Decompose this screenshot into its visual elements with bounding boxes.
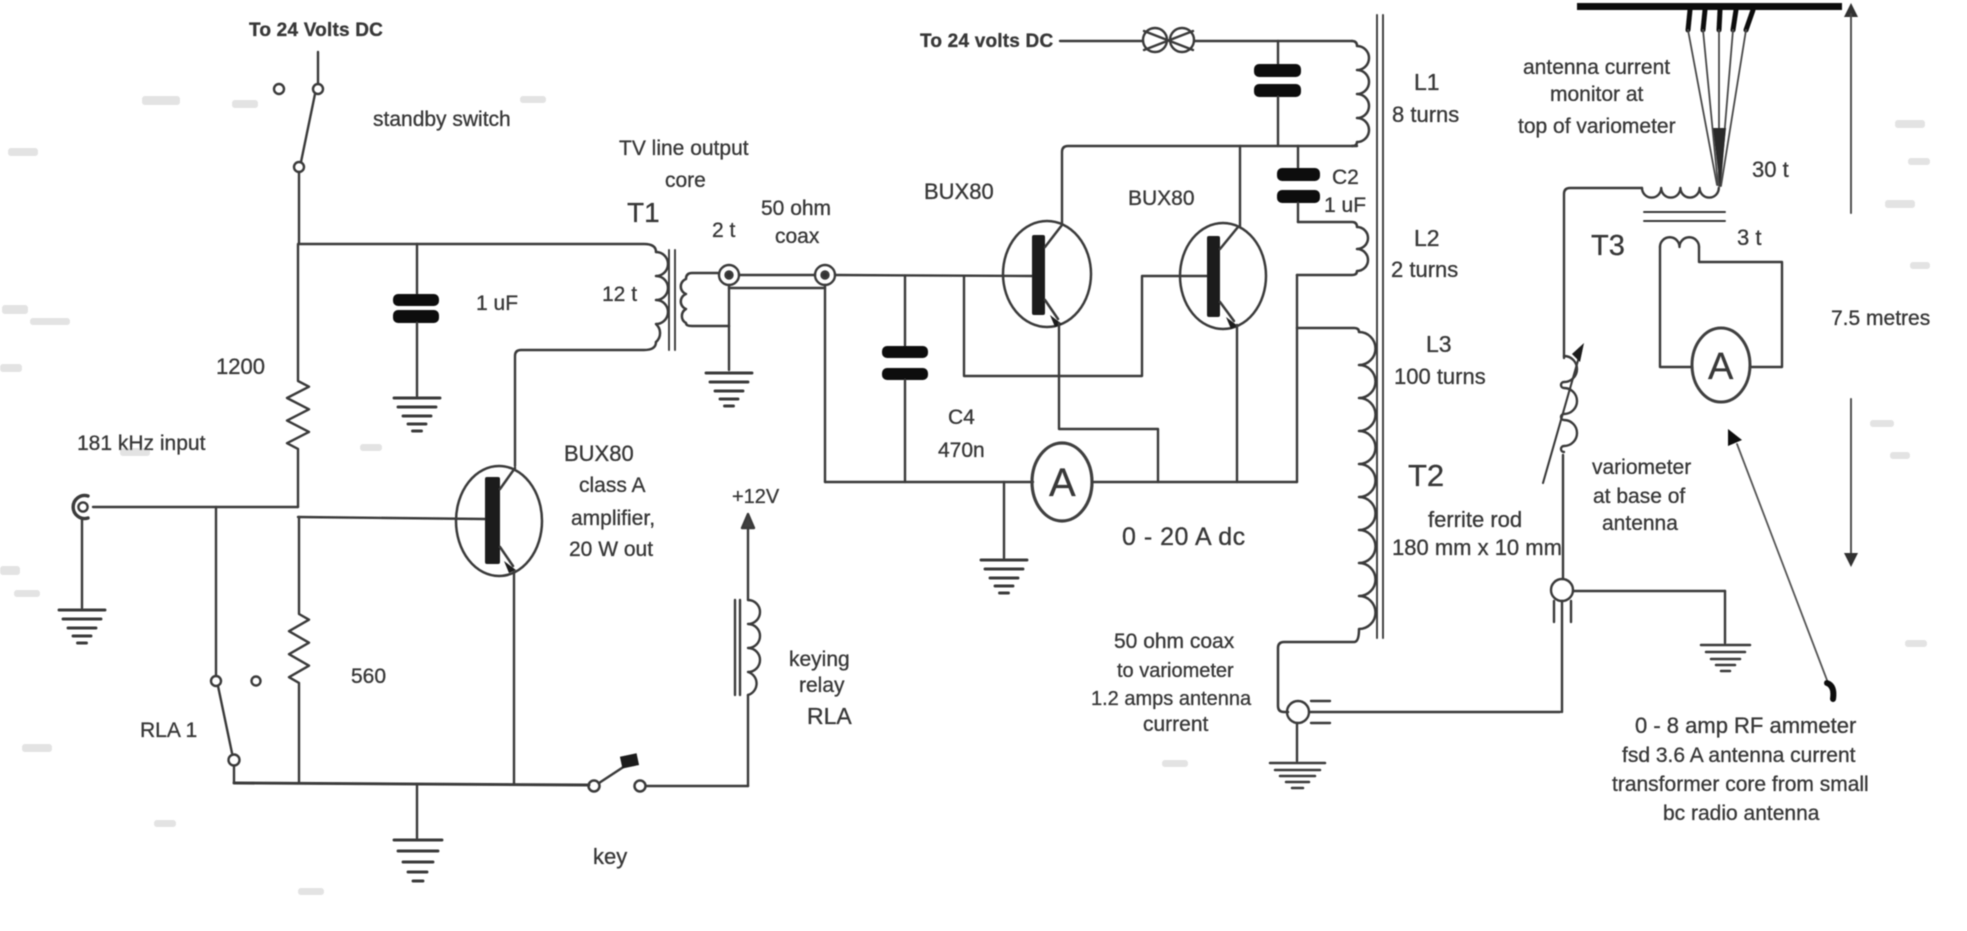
- svg-text:C4: C4: [948, 406, 975, 429]
- relay coil RLA: [735, 600, 760, 695]
- svg-text:7.5 metres: 7.5 metres: [1831, 307, 1930, 330]
- inductor L3 100 turns: [1278, 328, 1376, 712]
- wire Q3 emitter: [1236, 325, 1238, 482]
- transformer T3 core: [1644, 212, 1725, 221]
- wire bus A to L2L3 column: [1092, 481, 1297, 483]
- svg-text:2 turns: 2 turns: [1391, 257, 1458, 282]
- inductor L2 2 turns: [1297, 222, 1368, 275]
- svg-text:A: A: [1708, 346, 1734, 388]
- svg-text:BUX80: BUX80: [924, 179, 994, 204]
- svg-text:0 - 8 amp RF ammeter: 0 - 8 amp RF ammeter: [1635, 713, 1856, 738]
- inductor L1 8 turns: [1352, 41, 1369, 146]
- svg-text:amplifier,: amplifier,: [571, 507, 655, 530]
- resistor 560: [289, 517, 309, 783]
- svg-text:monitor at: monitor at: [1550, 83, 1644, 106]
- transistor Q1 BUX80: [456, 466, 542, 576]
- connector coax variometer: [1551, 579, 1725, 712]
- capacitor C4 470n: [882, 276, 928, 482]
- svg-text:L1: L1: [1414, 69, 1440, 95]
- svg-text:BUX80: BUX80: [564, 441, 634, 466]
- svg-text:L3: L3: [1426, 331, 1452, 357]
- meter A antenna current: [1692, 328, 1750, 402]
- wire Q2 emitter: [1059, 323, 1158, 482]
- wire RLA branch: [215, 507, 217, 676]
- capacitor C1 1uF tank: [1254, 41, 1301, 146]
- svg-text:180 mm x 10 mm: 180 mm x 10 mm: [1392, 535, 1562, 560]
- svg-text:To 24 Volts DC: To 24 Volts DC: [249, 20, 383, 41]
- svg-text:T1: T1: [627, 197, 660, 228]
- transformer T1 secondary 2t: [681, 273, 729, 326]
- svg-text:transformer core from small: transformer core from small: [1612, 773, 1869, 796]
- arrow pointer RF ammeter: [1728, 429, 1833, 699]
- connector coax L3: [1287, 701, 1560, 761]
- svg-text:RLA: RLA: [807, 703, 852, 729]
- connector coax right: [815, 265, 835, 285]
- svg-text:560: 560: [351, 665, 386, 688]
- svg-text:50 ohm: 50 ohm: [761, 197, 831, 220]
- svg-text:100 turns: 100 turns: [1394, 364, 1486, 389]
- svg-text:class A: class A: [579, 474, 646, 497]
- wire ground stub ammeter: [1003, 482, 1005, 558]
- svg-text:3 t: 3 t: [1737, 225, 1761, 250]
- svg-text:20 W out: 20 W out: [569, 538, 653, 561]
- switch standby: [274, 84, 323, 172]
- ground capacitor 1uF: [394, 398, 440, 431]
- svg-text:bc radio antenna: bc radio antenna: [1663, 802, 1820, 825]
- svg-text:current: current: [1143, 713, 1209, 736]
- connector input jack: [73, 496, 88, 519]
- transformer T1 primary 12t: [656, 252, 668, 342]
- svg-text:keying: keying: [789, 648, 850, 671]
- wire Q3 collector: [1239, 146, 1241, 227]
- wire right connector down to bus: [824, 285, 826, 482]
- ground coax L3: [1270, 763, 1325, 788]
- svg-text:8 turns: 8 turns: [1392, 102, 1459, 127]
- wire T3 primary left to variometer: [1564, 188, 1642, 358]
- svg-text:12 t: 12 t: [602, 283, 637, 306]
- antenna top wire: [1577, 3, 1842, 10]
- svg-text:variometer: variometer: [1592, 456, 1691, 479]
- svg-text:30 t: 30 t: [1752, 157, 1789, 182]
- wire Q1 collector: [515, 342, 656, 466]
- svg-text:C2: C2: [1332, 166, 1359, 189]
- lamp fuse symbol: [1143, 28, 1194, 52]
- svg-text:2 t: 2 t: [712, 219, 736, 242]
- svg-text:relay: relay: [799, 674, 845, 697]
- wire Q1 emitter: [513, 572, 515, 784]
- wire coax shield to ground: [728, 285, 730, 370]
- svg-text:L2: L2: [1414, 225, 1440, 251]
- connector coax left: [719, 265, 739, 285]
- ground bus: [394, 840, 442, 881]
- svg-text:T3: T3: [1591, 230, 1625, 262]
- wire coax to bases: [835, 275, 1032, 276]
- svg-text:coax: coax: [775, 225, 820, 248]
- ground variometer: [1701, 645, 1750, 671]
- relay contact RLA 1: [211, 676, 261, 783]
- wire ground stub input: [81, 518, 83, 608]
- transformer T1 core: [669, 250, 675, 350]
- transistor Q3 BUX80: [1180, 223, 1266, 329]
- svg-text:standby switch: standby switch: [373, 108, 511, 131]
- svg-text:A: A: [1049, 461, 1076, 505]
- wire lamp to L1: [1194, 40, 1352, 42]
- wire variometer to connector: [1562, 455, 1564, 579]
- wire +12V arrow: [742, 514, 754, 600]
- wire bottom bus: [234, 783, 589, 785]
- svg-text:RLA 1: RLA 1: [140, 719, 197, 742]
- wire base Q1: [298, 517, 485, 519]
- svg-text:T2: T2: [1408, 458, 1444, 493]
- svg-text:key: key: [593, 844, 627, 869]
- wire ground stub bus: [416, 784, 418, 838]
- antenna feed strokes: [1688, 10, 1753, 30]
- transistor Q2 BUX80: [1003, 221, 1091, 327]
- wire base link U: [964, 276, 1207, 376]
- svg-text:181 kHz input: 181 kHz input: [77, 432, 206, 455]
- svg-text:to variometer: to variometer: [1117, 660, 1234, 682]
- ground coax: [706, 373, 752, 406]
- svg-text:TV line output: TV line output: [619, 137, 749, 160]
- svg-text:1 uF: 1 uF: [476, 292, 518, 315]
- svg-text:1.2 amps antenna: 1.2 amps antenna: [1091, 688, 1252, 710]
- inductor variometer: [1561, 356, 1577, 452]
- ground input: [59, 610, 105, 643]
- svg-text:core: core: [665, 169, 706, 192]
- ground ammeter: [981, 560, 1027, 593]
- capacitor 1uF T1: [393, 244, 439, 396]
- meter A 0-20A: [1032, 443, 1092, 521]
- svg-text:antenna current: antenna current: [1523, 56, 1670, 79]
- svg-text:50 ohm coax: 50 ohm coax: [1114, 630, 1235, 653]
- svg-text:antenna: antenna: [1602, 512, 1678, 535]
- wire switch to bus: [298, 172, 300, 244]
- svg-text:To 24 volts DC: To 24 volts DC: [920, 31, 1053, 52]
- transformer T3 primary 30t: [1642, 188, 1719, 198]
- switch key: [589, 753, 749, 791]
- wire 24V bus to T1 top: [299, 244, 656, 252]
- arrow variometer: [1543, 343, 1584, 483]
- capacitor C2 1uF: [1277, 146, 1320, 222]
- svg-text:at base of: at base of: [1593, 485, 1685, 508]
- transformer T2 core ferrite rod: [1377, 15, 1383, 638]
- svg-text:0 - 20 A dc: 0 - 20 A dc: [1122, 523, 1246, 551]
- wire T3 secondary loop: [1660, 247, 1782, 367]
- wire coax pair: [729, 275, 825, 288]
- wire (scan smudges): [8, 148, 38, 156]
- svg-text:1200: 1200: [216, 354, 265, 379]
- svg-text:fsd 3.6 A antenna current: fsd 3.6 A antenna current: [1622, 744, 1856, 767]
- wire Q2 collector: [1062, 146, 1357, 225]
- wire emitter bus: [825, 481, 1033, 483]
- wire 24V to lamp: [1060, 40, 1143, 42]
- wire input to base column: [93, 506, 298, 508]
- svg-text:ferrite rod: ferrite rod: [1428, 507, 1522, 532]
- wire fan to T3: [1688, 30, 1746, 186]
- svg-text:1 uF: 1 uF: [1324, 194, 1366, 217]
- svg-text:top of variometer: top of variometer: [1518, 115, 1676, 138]
- resistor 1200: [287, 244, 309, 507]
- wire relay column: [747, 695, 749, 786]
- wire 24V feed stub: [317, 52, 319, 84]
- transformer T3 secondary 3t: [1660, 237, 1699, 247]
- svg-text:+12V: +12V: [732, 486, 780, 508]
- wire L2 to bus column: [1296, 275, 1298, 482]
- svg-text:BUX80: BUX80: [1128, 187, 1195, 210]
- wire fan bundle wedge: [1713, 128, 1726, 188]
- svg-text:470n: 470n: [938, 439, 985, 462]
- dimension arrow 7.5 metres: [1844, 3, 1858, 567]
- wire ground stub variometer: [1724, 591, 1726, 643]
